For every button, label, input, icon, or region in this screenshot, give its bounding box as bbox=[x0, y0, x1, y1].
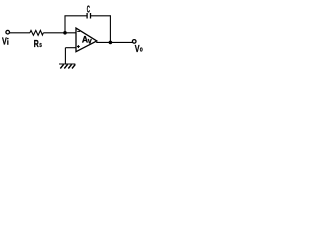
resistor Rs bbox=[30, 30, 43, 35]
wire feedback top right horizontal bbox=[91, 15, 111, 17]
op-amp Av bbox=[76, 28, 97, 52]
wire feedback top left horizontal bbox=[64, 15, 87, 17]
svg-text:o: o bbox=[140, 45, 143, 54]
wire op-amp noninverting input bbox=[65, 47, 76, 49]
svg-text:v: v bbox=[88, 36, 92, 45]
node junction at inverting input bbox=[63, 31, 67, 35]
svg-text:V: V bbox=[2, 37, 7, 48]
wire feedback right vertical bbox=[109, 15, 111, 42]
wire op-amp output bbox=[96, 41, 132, 43]
wire Vi to Rs bbox=[10, 32, 30, 34]
output terminal Vo bbox=[132, 40, 136, 44]
wire Rs to op-amp inverting input bbox=[43, 32, 76, 34]
label Vo bbox=[135, 44, 143, 55]
svg-text:C: C bbox=[87, 5, 90, 16]
wire to ground vertical bbox=[64, 48, 66, 64]
input terminal Vi bbox=[6, 30, 10, 34]
ground bbox=[59, 64, 75, 69]
wire feedback left vertical bbox=[64, 16, 66, 33]
node junction at output bbox=[109, 41, 113, 45]
label Vi bbox=[2, 37, 9, 48]
label Av bbox=[82, 34, 92, 45]
capacitor C bbox=[87, 13, 90, 19]
svg-text:s: s bbox=[39, 42, 42, 49]
label Rs bbox=[34, 39, 42, 50]
op-amp plus sign bbox=[77, 45, 80, 48]
op-amp minus sign bbox=[77, 31, 80, 33]
